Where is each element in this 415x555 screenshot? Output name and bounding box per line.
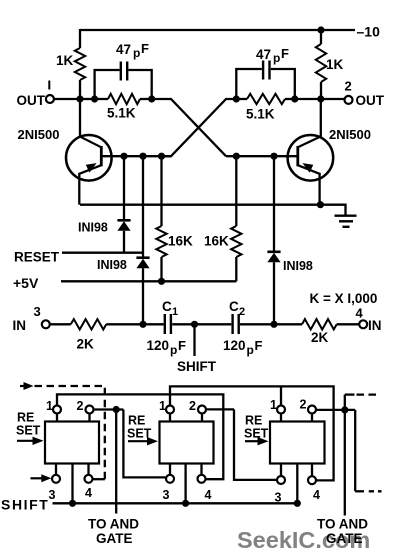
svg-text:4: 4: [313, 488, 320, 502]
wire FF1 pin2 cascade: [94, 410, 166, 478]
svg-text:1: 1: [46, 399, 53, 413]
wire Q1 base line: [101, 155, 171, 157]
arrow input to FF1 pin3: [31, 474, 52, 482]
svg-text:SHIFT: SHIFT: [177, 359, 217, 374]
svg-text:2: 2: [239, 306, 245, 318]
wire Q1 collector: [79, 99, 81, 138]
wire Q2 collector: [320, 99, 322, 138]
reset arrow FF2: [128, 437, 158, 445]
svg-text:SET: SET: [16, 424, 41, 438]
pin 4 FF1: [85, 464, 93, 483]
svg-text:INI98: INI98: [78, 221, 108, 235]
svg-text:IN: IN: [13, 318, 27, 333]
wire FF3 shift stub: [296, 464, 298, 504]
svg-text:INI98: INI98: [283, 259, 313, 273]
label RESET FF1: [16, 411, 41, 438]
label R4 5.1K: [246, 107, 275, 122]
label pin4 FF3: [313, 488, 320, 502]
label -10: [357, 24, 381, 40]
label IN right: [368, 318, 382, 333]
wire to AND gate 1: [115, 410, 117, 514]
node FF3 shift junction: [294, 500, 301, 507]
label SHIFT upper: [177, 359, 217, 374]
wire CR1 to reset line: [123, 231, 125, 253]
wire cross couple right-to-left: [162, 99, 237, 156]
wire FF3 pin2 line: [317, 409, 356, 411]
capacitor C3 47pF: [121, 62, 127, 81]
pin 3 FF3: [277, 464, 285, 485]
node emitter rail junction: [317, 201, 324, 208]
svg-text:2K: 2K: [77, 337, 95, 352]
resistor R3 5.1K: [95, 94, 152, 104]
svg-text:F: F: [141, 41, 149, 56]
svg-text:16K: 16K: [204, 234, 229, 249]
label pin1 FF3: [270, 398, 277, 412]
label pin4 FF1: [85, 486, 92, 500]
label R3 5.1K: [107, 106, 136, 121]
transistor Q1 2N1500: [66, 135, 112, 181]
terminal IN 4: [359, 320, 367, 328]
svg-text:–10: –10: [357, 24, 381, 40]
wire cap branch right up: [236, 69, 261, 99]
pin 4 FF2: [198, 464, 206, 483]
node Q2 base junctions: [233, 153, 278, 160]
svg-text:2K: 2K: [311, 330, 329, 345]
node Q1 base junctions: [120, 153, 165, 160]
watermark SeekIC.com: [237, 527, 370, 553]
svg-text:RE: RE: [245, 414, 262, 428]
wire FF3 pin1 stem up: [280, 386, 282, 405]
resistor R4 5.1K: [236, 94, 294, 104]
wire base to CR1: [123, 156, 125, 220]
wire FF2 pin1 to FF3 pin4: [170, 386, 334, 480]
label pin3 FF3: [275, 491, 282, 505]
label R8 2K: [311, 330, 329, 345]
wire base to reset junction: [142, 156, 144, 258]
label C3 47pF: [116, 41, 149, 60]
label C1: [162, 299, 178, 318]
node R5 bottom on +5V rail: [158, 278, 165, 285]
resistor R5 16K: [156, 156, 166, 281]
pin number 2: [345, 79, 352, 94]
label pin2 FF2: [189, 399, 196, 413]
svg-text:SHIFT: SHIFT: [1, 497, 49, 513]
label K=X1000: [310, 291, 378, 306]
label Q1 2N1500: [18, 127, 60, 142]
label R7 2K: [77, 337, 95, 352]
wire CR2 down to IN node: [142, 268, 144, 324]
svg-text:2NI500: 2NI500: [18, 127, 60, 142]
label pin1 FF1: [46, 399, 53, 413]
transistor Q2 2N1500: [288, 135, 334, 181]
wire FF2 shift stub: [184, 464, 186, 504]
svg-text:+5V: +5V: [13, 275, 39, 291]
svg-text:2: 2: [345, 79, 352, 94]
svg-text:16K: 16K: [168, 234, 193, 249]
svg-text:2NI500: 2NI500: [329, 127, 371, 142]
node FF1 shift junction: [69, 500, 76, 507]
flip-flop block FF3: [270, 422, 325, 464]
wire to AND gate 2: [344, 410, 346, 516]
pin 1 FF3: [277, 406, 285, 422]
svg-text:2: 2: [77, 399, 84, 413]
wire emitter rail: [80, 204, 320, 206]
svg-text:4: 4: [356, 306, 364, 321]
label C1 120pF: [147, 338, 187, 357]
node left collector A: [76, 95, 98, 102]
wire FF2 pin2 cascade: [207, 409, 277, 480]
svg-text:p: p: [170, 343, 177, 357]
wire cap branch left down: [129, 70, 152, 99]
wire OUT1 to node: [54, 98, 80, 100]
wire FF3 pin2 down for next stage: [354, 410, 356, 491]
label R2 1K: [326, 57, 344, 72]
svg-text:1: 1: [159, 399, 166, 413]
svg-text:4: 4: [205, 488, 212, 502]
svg-text:IN: IN: [368, 318, 382, 333]
svg-text:GATE: GATE: [96, 531, 133, 546]
wire RESET line: [62, 252, 143, 254]
resistor R6 16K: [231, 156, 241, 281]
pin 1 FF2: [166, 406, 174, 422]
node SHIFT junction: [191, 321, 198, 328]
diode CR3 1N198: [267, 252, 280, 262]
wire cap branch right down: [271, 69, 295, 99]
svg-text:1: 1: [172, 306, 178, 318]
resistor R1 1K: [75, 29, 85, 99]
reset arrow FF1: [17, 437, 44, 445]
label pin3 FF1: [49, 488, 56, 502]
pin 3 FF2: [166, 464, 174, 483]
wire left collector: [80, 98, 95, 100]
svg-text:TO AND: TO AND: [317, 517, 368, 532]
label TO AND GATE 2: [317, 517, 368, 547]
wire FF1 pin1 to FF2 pin4: [57, 394, 223, 479]
wire SHIFT line: [53, 502, 298, 504]
pin number 1: [48, 81, 50, 90]
wire cross couple left-to-right: [152, 99, 226, 156]
svg-text:120: 120: [223, 338, 246, 353]
svg-text:p: p: [273, 51, 280, 65]
svg-text:F: F: [178, 338, 186, 353]
resistor R8 2K: [274, 319, 359, 329]
resistor R7 2K: [50, 319, 143, 329]
label OUT right: [356, 93, 385, 108]
node FF2 shift junction: [182, 500, 189, 507]
svg-text:OUT: OUT: [17, 93, 46, 108]
ground: [335, 216, 357, 227]
pin 4 FF3: [308, 464, 316, 485]
svg-text:INI98: INI98: [97, 258, 127, 272]
terminal OUT 2: [345, 96, 353, 104]
node top rail junction: [317, 26, 324, 33]
wire base to CR3: [273, 156, 275, 251]
label +5V: [13, 275, 39, 291]
diode CR1 1N198: [117, 220, 130, 231]
label CR1 1N198: [78, 221, 108, 235]
capacitor C4 47pF: [263, 61, 269, 80]
wire dashed continuation bottom: [355, 490, 381, 492]
svg-text:p: p: [133, 46, 140, 60]
label pin4 FF2: [205, 488, 212, 502]
label C4 47pF: [256, 46, 289, 65]
svg-text:4: 4: [85, 486, 92, 500]
label RESET FF3: [244, 414, 269, 441]
diode CR2 1N198: [136, 258, 149, 269]
svg-text:SET: SET: [244, 427, 269, 441]
label IN left: [13, 318, 27, 333]
svg-text:p: p: [247, 343, 254, 357]
wire SHIFT stub: [193, 324, 195, 356]
svg-text:GATE: GATE: [326, 531, 363, 546]
pin number 3: [34, 304, 41, 319]
capacitor C2 120pF: [195, 314, 275, 334]
pin 2 FF1: [86, 406, 94, 422]
wire Q2 base line: [226, 155, 298, 157]
svg-text:OUT: OUT: [356, 93, 385, 108]
svg-text:RE: RE: [17, 411, 34, 425]
svg-text:F: F: [255, 338, 263, 353]
node C2 right: [270, 321, 277, 328]
svg-text:47: 47: [116, 42, 131, 57]
wire FF1 shift stub: [71, 464, 73, 504]
label RESET FF2: [127, 414, 152, 441]
svg-text:C: C: [162, 299, 172, 314]
wire right collector: [295, 98, 345, 100]
label pin2 FF3: [300, 398, 307, 412]
pin 2 FF3: [308, 406, 316, 422]
wire to ground: [320, 205, 345, 215]
svg-text:RESET: RESET: [14, 250, 60, 265]
label Q2 2N1500: [329, 127, 371, 142]
label R1 1K: [56, 53, 74, 68]
svg-text:1: 1: [270, 398, 277, 412]
svg-text:3: 3: [49, 488, 56, 502]
node right collector B: [233, 95, 325, 102]
svg-text:K = X I,000: K = X I,000: [310, 291, 378, 306]
node FF3 pin2 junction: [341, 406, 348, 413]
pin number 4: [356, 306, 364, 321]
flip-flop block FF2: [160, 422, 214, 464]
svg-text:1K: 1K: [56, 53, 74, 68]
wire +5V rail: [61, 280, 236, 282]
wire cap branch left up: [95, 70, 120, 99]
label R6 16K: [204, 234, 229, 249]
label pin3 FF2: [163, 488, 170, 502]
svg-text:C: C: [229, 299, 239, 314]
svg-text:2: 2: [300, 398, 307, 412]
reset arrow FF3: [245, 437, 269, 445]
svg-text:2: 2: [189, 399, 196, 413]
pin 3 FF1: [52, 464, 60, 483]
label CR3 1N198: [283, 259, 313, 273]
node R3 right: [148, 95, 155, 102]
wire Q1 emitter: [78, 173, 80, 205]
wire dashed continuation top: [357, 393, 380, 395]
svg-text:TO AND: TO AND: [88, 517, 139, 532]
svg-text:5.1K: 5.1K: [107, 106, 136, 121]
capacitor C1 120pF: [143, 314, 195, 334]
svg-text:3: 3: [34, 304, 41, 319]
svg-text:F: F: [281, 46, 289, 61]
label pin1 FF2: [159, 399, 166, 413]
node C1 left: [139, 321, 146, 328]
terminal OUT 1: [46, 95, 54, 103]
resistor R2 1K: [316, 29, 326, 99]
label R5 16K: [168, 234, 193, 249]
label CR2 1N198: [97, 258, 127, 272]
flip-flop block FF1: [45, 422, 99, 464]
arrow dashed feedback input: [20, 382, 34, 390]
label C2: [229, 299, 245, 318]
wire top supply rail -10: [80, 29, 355, 31]
svg-text:1K: 1K: [326, 57, 344, 72]
terminal IN 3: [42, 320, 50, 328]
label RESET: [14, 250, 60, 265]
label pin2 FF1: [77, 399, 84, 413]
svg-text:47: 47: [256, 47, 271, 62]
label SHIFT bottom: [1, 497, 49, 513]
node FF1 pin2 junction: [113, 406, 120, 413]
svg-text:5.1K: 5.1K: [246, 107, 275, 122]
svg-text:3: 3: [163, 488, 170, 502]
wire CR3 down to IN node: [273, 262, 275, 324]
label OUT left: [17, 93, 46, 108]
wire dashed feedback: [35, 386, 105, 479]
svg-text:120: 120: [147, 338, 170, 353]
wire FF3 pin2 up to next-stage line: [345, 395, 355, 410]
wire Q2 emitter: [318, 173, 320, 205]
pin 2 FF2: [198, 406, 206, 422]
pin 1 FF1: [53, 406, 61, 422]
svg-text:RE: RE: [128, 414, 145, 428]
label TO AND GATE 1: [88, 517, 139, 547]
label C2 120pF: [223, 338, 263, 357]
